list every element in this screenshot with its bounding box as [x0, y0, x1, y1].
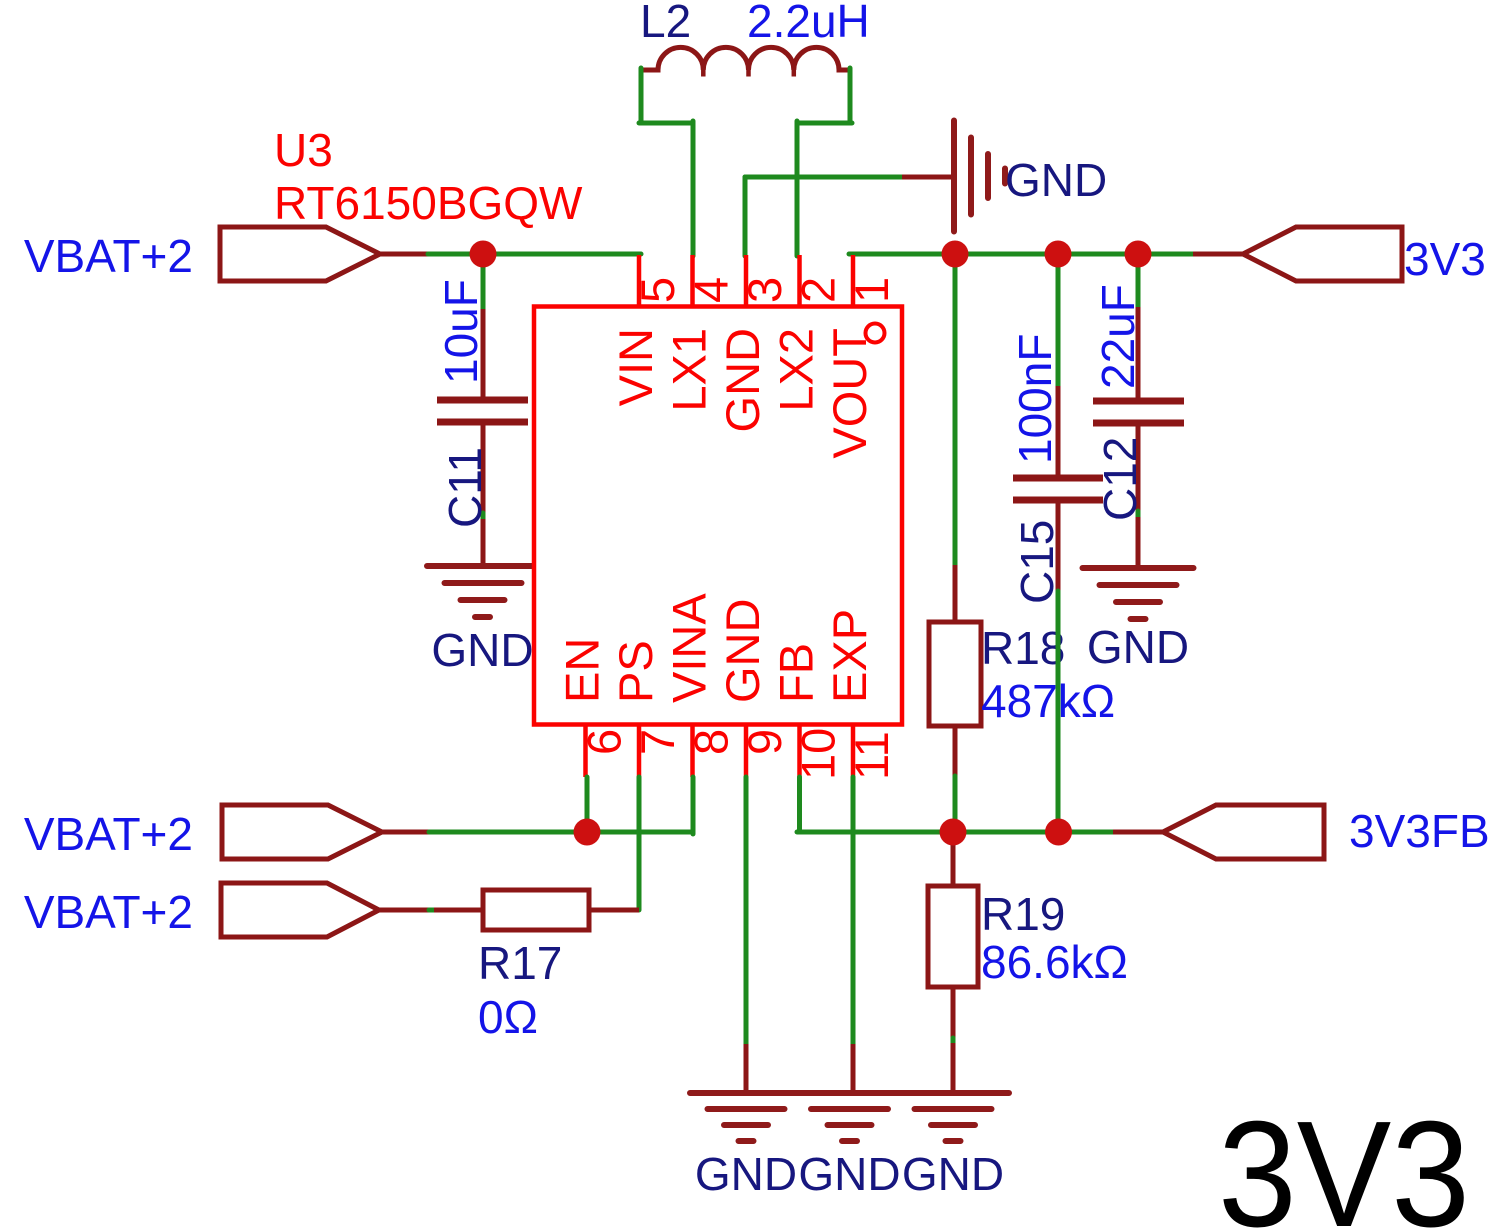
svg-text:VIN: VIN — [609, 328, 662, 406]
svg-text:5: 5 — [631, 277, 684, 303]
svg-text:C11: C11 — [439, 447, 491, 528]
port 3V3 — [1243, 227, 1402, 281]
svg-text:11: 11 — [845, 731, 898, 780]
wire pin10 down — [797, 777, 802, 832]
svg-text:LX2: LX2 — [770, 328, 823, 412]
resistor R17 pin2 — [591, 908, 639, 913]
svg-text:3: 3 — [738, 277, 791, 303]
wire to pin2 — [795, 121, 800, 256]
svg-text:GND: GND — [902, 1148, 1004, 1200]
svg-text:C12: C12 — [1094, 437, 1146, 521]
wire L2 right horiz — [797, 121, 852, 126]
wire L2 left down — [639, 68, 644, 123]
junction J4 — [1125, 241, 1152, 268]
wire R18-J5 — [953, 776, 958, 832]
svg-text:R17: R17 — [478, 937, 562, 989]
gnd pin (under R19) — [951, 1043, 956, 1093]
svg-text:4: 4 — [685, 277, 738, 303]
svg-text:10uF: 10uF — [435, 279, 487, 384]
svg-text:GND: GND — [716, 599, 769, 703]
svg-text:VINA: VINA — [663, 593, 716, 703]
port VBAT+2 (bottom) — [221, 883, 379, 937]
svg-text:VBAT+2: VBAT+2 — [24, 230, 193, 282]
wire to pin4 — [691, 121, 696, 256]
junction J6 — [1045, 819, 1072, 846]
svg-text:GND: GND — [1087, 621, 1189, 673]
capacitor C12 pin2 — [1136, 423, 1141, 513]
wire pin6 down — [585, 777, 590, 833]
port VBAT+2 (top left) — [220, 227, 380, 281]
svg-text:VOUT: VOUT — [823, 328, 876, 459]
wire C12-gnd — [1136, 511, 1141, 519]
wire pin9 down — [744, 777, 749, 1046]
svg-text:U3: U3 — [274, 124, 333, 176]
svg-text:FB: FB — [770, 643, 823, 703]
gnd pin (under pin11) — [851, 1044, 856, 1093]
svg-text:22uF: 22uF — [1092, 284, 1144, 389]
svg-text:VBAT+2: VBAT+2 — [24, 808, 193, 860]
svg-text:EN: EN — [556, 638, 609, 703]
port VBAT+2 (middle) — [222, 805, 382, 859]
svg-text:0Ω: 0Ω — [478, 991, 538, 1043]
svg-text:R19: R19 — [981, 888, 1065, 940]
junction J1 — [470, 241, 497, 268]
junction J7 — [574, 819, 601, 846]
svg-text:100nF: 100nF — [1009, 334, 1061, 464]
gnd pin C12 — [1136, 517, 1141, 568]
wire pin3 up — [743, 177, 748, 256]
gnd pin (top right) — [902, 175, 951, 180]
pin 1 stub — [851, 255, 856, 307]
pin 4 stub — [690, 255, 695, 307]
capacitor C11 pin2 — [481, 422, 486, 515]
op-amp U3 body (IC RT6150BGQW) — [534, 307, 902, 725]
capacitor C15 plates — [1013, 478, 1103, 500]
wire port3 pin — [377, 908, 429, 913]
svg-text:6: 6 — [578, 729, 631, 755]
resistor R18 pin1 — [953, 565, 958, 620]
svg-text:GND: GND — [1005, 154, 1107, 206]
svg-text:GND: GND — [798, 1148, 900, 1200]
ground GND (bottom middle) — [794, 1093, 905, 1141]
pin 6 stub — [583, 725, 588, 778]
pin 10 stub — [797, 725, 802, 778]
svg-text:3V3FB: 3V3FB — [1349, 805, 1490, 857]
svg-text:VBAT+2: VBAT+2 — [24, 886, 193, 938]
wire pin3 gnd — [745, 175, 906, 180]
wire pin7 down — [637, 777, 642, 910]
pin 7 stub — [637, 725, 642, 778]
capacitor C12 pin1 — [1136, 307, 1141, 401]
svg-text:3V3: 3V3 — [1404, 233, 1486, 285]
inductor L2 cusp ticks — [703, 70, 794, 77]
capacitor C11 pin1 — [481, 309, 486, 400]
capacitor C15 pin1 — [1056, 386, 1061, 478]
wire R19-gnd — [951, 1038, 956, 1045]
svg-text:GND: GND — [431, 624, 533, 676]
wire rail-port3V3FB — [1113, 830, 1167, 835]
svg-text:7: 7 — [631, 729, 684, 755]
pin 9 stub — [744, 725, 749, 778]
inductor L2 — [639, 47, 849, 70]
wire port3-R17 — [429, 908, 434, 913]
wire L2 right down — [848, 68, 853, 123]
resistor R19 pin2 — [951, 989, 956, 1040]
wire C11-gnd — [481, 513, 486, 521]
wire VBAT rail mid — [429, 830, 693, 835]
resistor R19 body — [928, 886, 978, 987]
svg-text:GND: GND — [716, 328, 769, 432]
pin 8 stub — [690, 725, 695, 778]
svg-text:2.2uH: 2.2uH — [747, 0, 870, 47]
svg-text:GND: GND — [695, 1148, 797, 1200]
ground GND (top right, rotated) — [954, 121, 1005, 232]
gnd pin C11 — [481, 519, 486, 566]
svg-text:487kΩ: 487kΩ — [981, 675, 1115, 727]
junction J3 — [1045, 241, 1072, 268]
svg-text:LX1: LX1 — [663, 328, 716, 412]
svg-text:1: 1 — [845, 277, 898, 303]
wire J2 down — [953, 253, 958, 567]
wire C15-J6 — [1056, 591, 1061, 832]
pin 3 stub — [744, 255, 749, 307]
svg-text:RT6150BGQW: RT6150BGQW — [274, 177, 583, 229]
wire J3 down — [1056, 253, 1061, 388]
ground GND (under C12) — [1083, 568, 1194, 619]
svg-text:86.6kΩ: 86.6kΩ — [981, 936, 1128, 988]
capacitor C15 pin2 — [1056, 500, 1061, 593]
wire pin11 down — [851, 777, 856, 1046]
svg-text:2: 2 — [792, 277, 845, 303]
wire J1 down — [481, 253, 486, 311]
wire pin8 down — [691, 777, 696, 834]
resistor R18 pin2 — [953, 728, 958, 778]
resistor R17 pin1 — [434, 908, 481, 913]
capacitor C11 plates — [437, 400, 528, 422]
svg-text:EXP: EXP — [823, 609, 876, 703]
pin 11 stub — [851, 725, 856, 778]
wire 3V3FB rail — [797, 830, 1113, 835]
junction J5 — [940, 819, 967, 846]
wire port1 pin — [378, 252, 430, 257]
resistor R19 pin1 — [951, 836, 956, 884]
wire VBAT rail top — [428, 252, 641, 257]
wire 3V3 rail — [849, 252, 1193, 257]
port 3V3FB — [1163, 805, 1324, 859]
svg-text:9: 9 — [738, 729, 791, 755]
junction J2 — [942, 241, 969, 268]
svg-text:8: 8 — [685, 729, 738, 755]
pin 2 stub — [797, 255, 802, 307]
svg-text:C15: C15 — [1011, 520, 1063, 604]
wire J4 down — [1136, 253, 1141, 309]
ground GND (under C11) — [427, 566, 538, 617]
resistor R17 body — [483, 890, 589, 930]
wire port2 pin — [380, 830, 431, 835]
wire L2 left horiz — [639, 121, 693, 126]
svg-text:PS: PS — [609, 640, 662, 703]
ground GND (bottom left) — [690, 1093, 802, 1141]
svg-text:3V3: 3V3 — [1218, 1089, 1470, 1230]
svg-text:L2: L2 — [640, 0, 691, 47]
ground GND (bottom right) — [898, 1093, 1010, 1141]
svg-text:10: 10 — [792, 728, 845, 780]
wire rail-port3V3 — [1193, 252, 1246, 257]
pin1 VOUT inner circle — [866, 324, 885, 343]
capacitor C12 plates — [1093, 401, 1184, 423]
svg-text:R18: R18 — [981, 622, 1065, 674]
resistor R18 body — [929, 622, 981, 726]
pin 5 stub — [637, 255, 642, 307]
gnd pin (under pin9) — [744, 1044, 749, 1093]
